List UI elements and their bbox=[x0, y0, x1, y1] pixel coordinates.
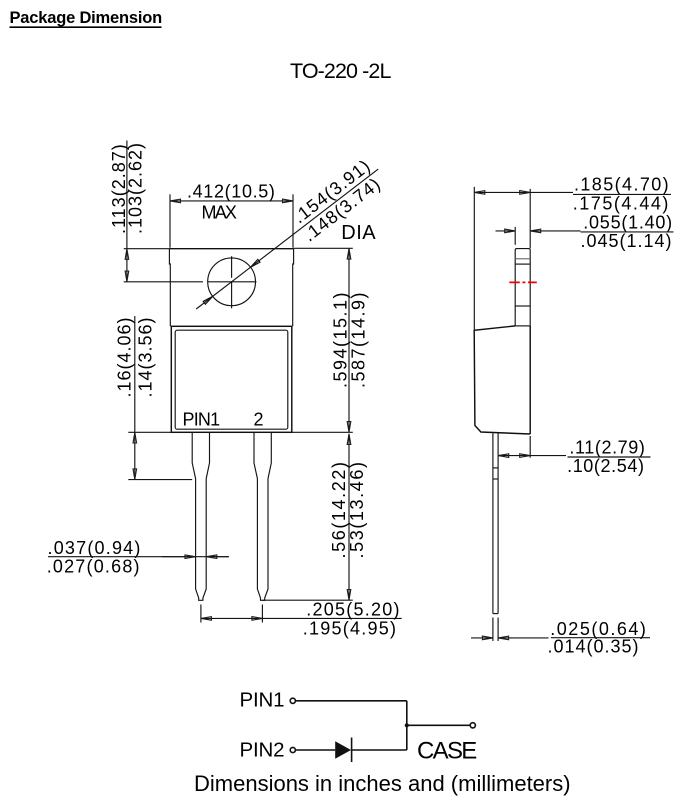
schematic terminal PIN2 bbox=[290, 747, 295, 752]
svg-text:.11(2.79): .11(2.79) bbox=[569, 437, 645, 457]
front view tab outline bbox=[169, 249, 293, 327]
title Package Dimension bbox=[10, 9, 163, 27]
wire to CASE bbox=[407, 724, 471, 726]
dimension .16(4.06)/.14(3.56) shoulder length bbox=[115, 316, 193, 480]
wire vertical bbox=[406, 701, 408, 750]
svg-text:Package Dimension: Package Dimension bbox=[10, 9, 163, 27]
dimension .56(14.22)/.53(13.46) lead length bbox=[262, 434, 367, 600]
front view body (moulded plastic) bbox=[171, 326, 291, 432]
diode D1 bbox=[335, 738, 351, 763]
lead 2 front bbox=[254, 432, 271, 600]
side view tab bbox=[515, 249, 530, 326]
red hole center line bbox=[509, 281, 537, 283]
svg-text:.53(13.46): .53(13.46) bbox=[347, 460, 367, 558]
svg-text:.014(0.35): .014(0.35) bbox=[548, 637, 640, 657]
svg-text:.587(14.9): .587(14.9) bbox=[349, 291, 369, 388]
dimension .11(2.79)/.10(2.54) lead to back bbox=[498, 436, 650, 476]
svg-text:.56(14.22): .56(14.22) bbox=[329, 460, 349, 558]
lead 1 front bbox=[192, 432, 209, 600]
dimension .025(0.64)/.014(0.35) lead thickness side bbox=[471, 618, 650, 657]
svg-text:.045(1.14): .045(1.14) bbox=[581, 231, 673, 251]
schematic terminal PIN1 bbox=[290, 698, 295, 703]
svg-text:.14(3.56): .14(3.56) bbox=[135, 316, 155, 397]
dimension .037(0.94)/.027(0.68) lead thickness bbox=[47, 538, 229, 576]
svg-text:.195(4.95): .195(4.95) bbox=[303, 619, 398, 639]
svg-text:.175(4.44): .175(4.44) bbox=[573, 193, 670, 213]
svg-text:.10(2.54): .10(2.54) bbox=[567, 456, 644, 476]
dimension .205(5.20)/.195(4.95) lead spacing bbox=[201, 599, 402, 638]
dimension .154(3.91)/.148(3.74) DIA hole diameter leader bbox=[196, 155, 387, 309]
svg-text:CASE: CASE bbox=[417, 738, 476, 765]
schematic terminal CASE bbox=[470, 723, 475, 728]
side view lead bbox=[493, 433, 498, 613]
svg-text:2: 2 bbox=[254, 410, 264, 430]
svg-text:PIN1: PIN1 bbox=[240, 689, 285, 712]
svg-text:.185(4.70): .185(4.70) bbox=[574, 175, 670, 195]
svg-text:.027(0.68): .027(0.68) bbox=[47, 557, 141, 577]
dimension .113(2.87)/.103(2.62) tab top to hole center bbox=[109, 141, 169, 282]
svg-text:PIN1: PIN1 bbox=[183, 410, 221, 430]
svg-text:.055(1.40): .055(1.40) bbox=[583, 212, 673, 232]
dimension .594(15.1)/.587(14.9) overall height bbox=[292, 248, 369, 432]
junction node bbox=[405, 723, 409, 727]
dimension .412(10.5) MAX tab width bbox=[170, 181, 293, 247]
wire diode to corner bbox=[352, 749, 407, 751]
svg-text:.16(4.06): .16(4.06) bbox=[115, 316, 135, 397]
svg-text:MAX: MAX bbox=[202, 203, 237, 223]
svg-text:TO-220 -2L: TO-220 -2L bbox=[290, 59, 391, 83]
wire PIN1 to corner bbox=[296, 700, 407, 702]
wire PIN2 to diode bbox=[296, 749, 336, 751]
svg-text:.037(0.94): .037(0.94) bbox=[48, 538, 142, 558]
side view body bbox=[474, 326, 530, 434]
svg-text:.594(15.1): .594(15.1) bbox=[331, 291, 351, 388]
mounting hole bbox=[124, 256, 257, 308]
svg-text:.412(10.5): .412(10.5) bbox=[187, 181, 276, 201]
dimension .055(1.40)/.045(1.14) tab thickness bbox=[496, 212, 674, 251]
svg-text:.103(2.62): .103(2.62) bbox=[126, 142, 146, 234]
svg-text:.205(5.20): .205(5.20) bbox=[306, 599, 401, 619]
svg-text:PIN2: PIN2 bbox=[240, 738, 285, 761]
dimension .185(4.70)/.175(4.44) body thickness bbox=[474, 175, 671, 330]
svg-text:DIA: DIA bbox=[341, 222, 376, 244]
svg-text:Dimensions in inches and (mill: Dimensions in inches and (millimeters) bbox=[194, 771, 571, 796]
